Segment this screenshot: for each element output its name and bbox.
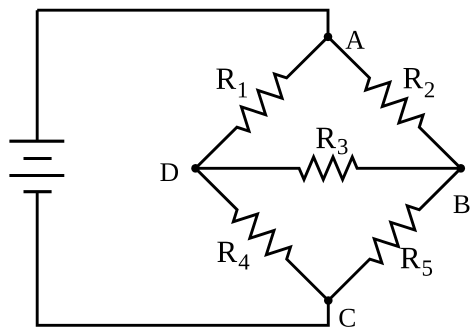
- label R5: [401, 248, 432, 276]
- label R4: [217, 242, 249, 270]
- label R3: [316, 128, 347, 155]
- resistor R4 (between node D and node C): [196, 168, 329, 300]
- node B junction dot: [457, 164, 466, 173]
- resistor R1 (between node D and node A): [196, 37, 329, 169]
- wire: left rail from top-left corner down to battery positive plate: [36, 10, 39, 141]
- battery: long plate (middle): [9, 174, 64, 177]
- label R1: [216, 69, 247, 98]
- label node A: [346, 31, 365, 49]
- node D junction dot: [191, 164, 200, 173]
- battery: short plate: [24, 157, 52, 160]
- resistor R5 (between node C and node B): [328, 168, 461, 300]
- wire: from battery negative plate down, along bottom rail, up to node C: [37, 192, 328, 326]
- node A junction dot: [324, 33, 333, 42]
- resistor R2 (between node A and node B): [328, 37, 461, 169]
- battery: long plate (top, +): [9, 140, 64, 143]
- wire: top rail from top-left corner to corner above node A, down to A: [37, 10, 328, 37]
- label R2: [403, 68, 434, 97]
- resistor R3 (between node D and node B): [196, 157, 461, 180]
- battery: short plate (bottom, -): [24, 190, 52, 193]
- node C junction dot: [324, 296, 333, 305]
- label node B: [454, 195, 470, 213]
- label node C: [339, 309, 354, 327]
- label node D: [160, 163, 178, 181]
